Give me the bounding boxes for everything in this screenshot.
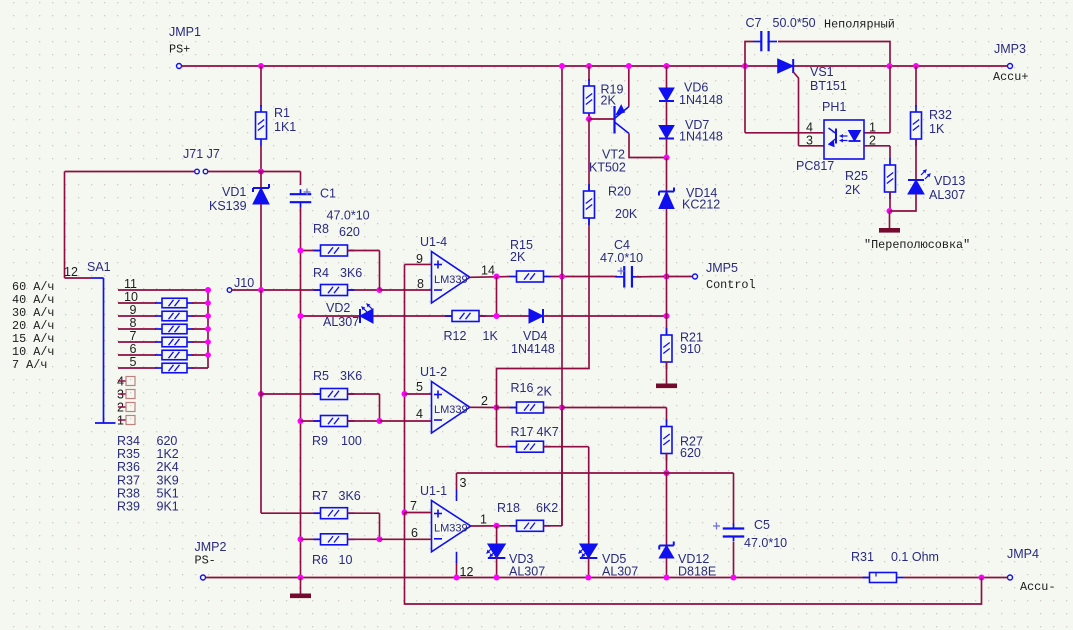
wire down to C5 — [733, 473, 735, 525]
svg-text:7: 7 — [130, 329, 137, 343]
pin 4 wire — [380, 420, 432, 422]
svg-text:47.0*10: 47.0*10 — [600, 251, 643, 265]
svg-text:4K7: 4K7 — [537, 425, 559, 439]
node JMP1 (PS+) terminal — [177, 64, 182, 69]
svg-text:14: 14 — [481, 264, 495, 278]
transistor VT2 KT502 — [589, 118, 614, 120]
op-amp U1-1 LM339 — [432, 501, 471, 552]
svg-text:Control: Control — [706, 278, 756, 292]
svg-text:KC212: KC212 — [682, 198, 720, 212]
pin 6 wire — [380, 538, 432, 540]
svg-text:J10: J10 — [234, 276, 254, 290]
svg-text:15 А/ч: 15 А/ч — [12, 332, 54, 346]
svg-text:R37: R37 — [117, 474, 140, 488]
svg-text:D818E: D818E — [678, 565, 716, 579]
resistor R7 3K6 — [260, 290, 262, 394]
svg-text:5: 5 — [130, 355, 137, 369]
junction R25/VD13/ground — [887, 208, 893, 214]
wire sense return bottom — [405, 513, 982, 605]
resistor R25 2K — [889, 158, 891, 165]
svg-text:10 А/ч: 10 А/ч — [12, 345, 54, 359]
svg-text:PH1: PH1 — [822, 100, 846, 114]
resistor R15 2K — [510, 276, 517, 278]
pin 3 stub — [456, 489, 458, 501]
svg-text:30 А/ч: 30 А/ч — [12, 306, 54, 320]
svg-text:620: 620 — [157, 434, 178, 448]
svg-text:U1-2: U1-2 — [420, 365, 447, 379]
svg-text:6: 6 — [130, 342, 137, 356]
resistor R27 620 — [666, 420, 668, 427]
svg-text:620: 620 — [680, 446, 701, 460]
svg-text:20 А/ч: 20 А/ч — [12, 319, 54, 333]
wire R1 to J71 node — [260, 146, 262, 172]
junction R8 tap on left bus — [298, 248, 304, 254]
svg-text:2K: 2K — [601, 94, 617, 108]
resistor R37 — [155, 341, 162, 343]
resistor R1 1K1 — [260, 66, 262, 107]
wire PH1 pin2 to R25 — [864, 145, 890, 147]
capacitor C4 47.0*10 — [623, 266, 625, 288]
svg-text:R18: R18 — [497, 501, 520, 515]
svg-text:47.0*10: 47.0*10 — [744, 536, 787, 550]
svg-text:3K9: 3K9 — [157, 474, 179, 488]
pin 5 wire — [405, 393, 432, 395]
wire VS1 to PH1 pin3 — [799, 145, 825, 147]
svg-text:12: 12 — [64, 265, 78, 279]
svg-text:R1: R1 — [274, 106, 290, 120]
svg-text:LM339: LM339 — [434, 274, 468, 286]
svg-text:R7: R7 — [312, 489, 328, 503]
svg-text:47.0*10: 47.0*10 — [327, 209, 370, 223]
diode VD2 AL307 LED — [301, 315, 361, 317]
svg-text:5K1: 5K1 — [157, 487, 179, 501]
svg-text:R34: R34 — [117, 434, 140, 448]
svg-text:R25: R25 — [845, 169, 868, 183]
junction collector/VD7 — [664, 155, 670, 161]
svg-text:10: 10 — [124, 290, 138, 304]
svg-text:10: 10 — [339, 553, 353, 567]
svg-text:2K: 2K — [510, 250, 526, 264]
svg-text:PS+: PS+ — [169, 43, 190, 57]
svg-text:8: 8 — [417, 277, 424, 291]
svg-text:U1-4: U1-4 — [420, 235, 447, 249]
diode VD3 AL307 LED — [496, 526, 498, 544]
resistor R36 — [155, 328, 162, 330]
node J10 jumper — [227, 288, 232, 293]
junction R4/R8 at pin8 row — [377, 287, 383, 293]
svg-text:3K6: 3K6 — [339, 489, 361, 503]
diode VD1 KS139 zener — [260, 172, 262, 189]
svg-text:AL307: AL307 — [509, 565, 545, 579]
svg-text:R16: R16 — [511, 381, 534, 395]
junction rail/VD5 — [585, 575, 591, 581]
svg-text:910: 910 — [680, 342, 701, 356]
resistor R9 100 — [298, 418, 304, 424]
svg-text:3K6: 3K6 — [340, 266, 362, 280]
output 1 wire — [471, 525, 517, 527]
svg-text:R20: R20 — [608, 185, 631, 199]
svg-text:2K: 2K — [537, 385, 553, 399]
diode VD6 1N4148 — [664, 63, 670, 69]
svg-text:1K1: 1K1 — [274, 120, 296, 134]
svg-text:R38: R38 — [117, 487, 140, 501]
junction J10 row / VD1 bus — [258, 287, 264, 293]
svg-text:3K6: 3K6 — [340, 369, 362, 383]
svg-text:J71 J7: J71 J7 — [183, 147, 220, 161]
svg-text:60 А/ч: 60 А/ч — [12, 280, 54, 294]
resistor R19 2K — [586, 63, 592, 69]
node JMP5 Control — [668, 276, 693, 278]
junction R5 row / sense bus — [402, 391, 408, 397]
wire PH1 pin4 to left vertical — [744, 66, 746, 133]
svg-text:9K1: 9K1 — [157, 500, 179, 514]
resistor R6 10 — [298, 536, 304, 542]
svg-text:Accu+: Accu+ — [993, 70, 1028, 84]
junction R31/sense return — [979, 575, 985, 581]
svg-text:AL307: AL307 — [929, 188, 965, 202]
optocoupler PH1 PC817 — [824, 120, 864, 159]
resistor R17 4K7 — [496, 408, 498, 447]
junction top rail / R32 — [913, 63, 919, 69]
svg-text:JMP3: JMP3 — [994, 42, 1026, 56]
svg-text:5: 5 — [416, 380, 423, 394]
svg-text:C5: C5 — [754, 518, 770, 532]
svg-text:2K: 2K — [845, 183, 861, 197]
wire J71 row to C1 corner — [208, 171, 301, 173]
emitter wire to rail — [628, 66, 630, 107]
op-amp U1-2 LM339 — [432, 382, 470, 434]
diode VD12 D818E zener — [666, 473, 668, 547]
svg-text:1N4148: 1N4148 — [679, 93, 723, 107]
resistor R12 1K — [445, 315, 452, 317]
resistor R18 6K2 — [510, 525, 517, 527]
svg-text:KS139: KS139 — [209, 199, 247, 213]
resistor R20 20K — [588, 119, 590, 191]
svg-text:R4: R4 — [313, 266, 329, 280]
diode VD7 1N4148 — [666, 101, 668, 126]
resistor R39 — [155, 367, 162, 369]
junction sense / pin7 — [402, 510, 408, 516]
ground R25 — [879, 228, 900, 233]
junction R16 right / x562 bus — [559, 405, 565, 411]
junction top rail / C7 branch — [742, 63, 748, 69]
thyristor VS1 BT151 — [778, 59, 794, 73]
svg-text:PC817: PC817 — [796, 159, 834, 173]
diode VD5 AL307 LED — [580, 544, 598, 558]
svg-text:1K: 1K — [483, 329, 499, 343]
svg-text:1K2: 1K2 — [157, 447, 179, 461]
wire pin8 row to opamp — [380, 289, 432, 291]
svg-text:R39: R39 — [117, 500, 140, 514]
diode VD4 1N4148 — [529, 309, 543, 323]
node JMP3 Accu+ terminal — [1008, 64, 1013, 69]
svg-text:Accu-: Accu- — [1020, 580, 1055, 594]
resistor R21 910 — [666, 316, 668, 335]
svg-text:VD1: VD1 — [222, 185, 246, 199]
junction R19 / VT2 base — [586, 116, 592, 122]
switch bus joining R34-R39 — [207, 290, 209, 368]
svg-text:2: 2 — [481, 394, 488, 408]
capacitor C7 50.0*50 — [745, 42, 753, 67]
svg-text:JMP1: JMP1 — [169, 25, 201, 39]
wire x562 bus from PS+ down to R18 — [561, 66, 563, 526]
node JMP4 Accu- terminal — [1008, 575, 1013, 580]
svg-text:VD13: VD13 — [934, 174, 965, 188]
svg-text:50.0*50: 50.0*50 — [773, 16, 816, 30]
svg-text:9: 9 — [130, 303, 137, 317]
svg-text:3: 3 — [806, 134, 813, 148]
resistor R31 0.1 Ohm shunt — [870, 573, 897, 583]
wire J71 row left — [65, 171, 195, 173]
svg-text:1N4148: 1N4148 — [679, 130, 723, 144]
svg-text:40 А/ч: 40 А/ч — [12, 293, 54, 307]
svg-text:2K4: 2K4 — [157, 460, 179, 474]
ground PS- — [290, 594, 311, 599]
svg-text:0.1 Ohm: 0.1 Ohm — [891, 550, 939, 564]
junction VD4 row right — [664, 313, 670, 319]
wire VD2 to sense bus — [373, 315, 452, 317]
svg-text:R36: R36 — [117, 460, 140, 474]
junction top rail / R1 — [258, 63, 264, 69]
svg-text:VD2: VD2 — [326, 301, 350, 315]
node J71 J7 jumper pins — [195, 169, 200, 174]
resistor R38 — [155, 354, 162, 356]
capacitor C5 47.0*10 — [723, 527, 745, 529]
svg-text:1: 1 — [480, 513, 487, 527]
collector wire — [629, 134, 667, 158]
svg-text:R9: R9 — [312, 434, 328, 448]
svg-text:Неполярный: Неполярный — [824, 18, 895, 32]
svg-text:1K: 1K — [929, 122, 945, 136]
svg-text:1N4148: 1N4148 — [511, 342, 555, 356]
svg-text:C1: C1 — [320, 187, 336, 201]
svg-text:R5: R5 — [313, 369, 329, 383]
svg-text:C4: C4 — [614, 238, 630, 252]
svg-text:BT151: BT151 — [810, 79, 847, 93]
svg-text:R17: R17 — [511, 425, 534, 439]
ground R21 — [656, 384, 677, 389]
svg-text:JMP4: JMP4 — [1007, 547, 1039, 561]
svg-text:7: 7 — [410, 499, 417, 513]
svg-text:AL307: AL307 — [602, 565, 638, 579]
resistor R8 620 — [301, 250, 321, 252]
resistor R4 3K6 — [314, 289, 321, 291]
capacitor C1 47.0*10 — [290, 193, 312, 195]
junction bus / row11 — [205, 287, 211, 293]
svg-text:PS-: PS- — [195, 554, 216, 568]
svg-text:3: 3 — [460, 476, 467, 490]
junction R27 bottom / pin3 row — [664, 470, 670, 476]
svg-text:VS1: VS1 — [810, 65, 834, 79]
junction top rail / C7 right / PH1 pin1 — [887, 63, 893, 69]
svg-text:7 А/ч: 7 А/ч — [12, 358, 47, 372]
pin 12 stub — [456, 552, 458, 563]
diode VD14 KC212 zener — [666, 158, 668, 196]
svg-text:JMP5: JMP5 — [706, 261, 738, 275]
svg-text:VT2: VT2 — [602, 148, 625, 162]
svg-text:R6: R6 — [312, 553, 328, 567]
svg-text:VD4: VD4 — [523, 329, 547, 343]
junction C4 row right — [664, 274, 670, 280]
svg-text:6: 6 — [411, 526, 418, 540]
svg-text:C7: C7 — [746, 16, 762, 30]
junction rail/left bus + ground — [298, 575, 304, 581]
svg-text:JMP2: JMP2 — [195, 540, 227, 554]
wire pin3 row — [456, 473, 458, 489]
svg-text:4: 4 — [416, 407, 423, 421]
svg-text:R8: R8 — [313, 222, 329, 236]
output 2 wire — [470, 406, 497, 408]
svg-text:R35: R35 — [117, 447, 140, 461]
node JMP2 PS- terminal — [201, 575, 206, 580]
wire left drop to SA1 pin 12 — [64, 172, 66, 279]
svg-text:LM339: LM339 — [434, 523, 468, 535]
svg-text:LM339: LM339 — [434, 404, 468, 416]
svg-text:620: 620 — [339, 225, 360, 239]
resistor R32 1K — [915, 66, 917, 107]
op-amp U1-4 LM339 — [432, 252, 470, 304]
resistor R34 — [155, 302, 162, 304]
wire C4 node down to VD4 row — [666, 277, 668, 317]
svg-text:1: 1 — [869, 121, 876, 135]
resistor R35 — [155, 315, 162, 317]
resistor R5 3K6 — [258, 391, 264, 397]
svg-text:11: 11 — [124, 277, 137, 291]
junction rail/pin12 — [454, 575, 460, 581]
svg-text:AL307: AL307 — [323, 315, 359, 329]
svg-text:R32: R32 — [929, 108, 952, 122]
svg-text:R31: R31 — [851, 550, 874, 564]
junction R12/VD4 row under pin14 — [494, 313, 500, 319]
wire R16 row to R27 — [562, 407, 667, 409]
junction rail/VD12 — [664, 575, 670, 581]
wire sense node vertical — [404, 316, 406, 513]
svg-text:R12: R12 — [444, 329, 467, 343]
junction rail/C5 — [731, 575, 737, 581]
resistor R16 2K — [497, 407, 518, 409]
svg-text:8: 8 — [130, 316, 137, 330]
VS1 gate wire — [793, 72, 798, 146]
diode VD13 AL307 LED — [908, 180, 924, 194]
svg-text:KT502: KT502 — [589, 161, 626, 175]
wire top rail PS+ — [182, 65, 1008, 67]
svg-text:"Переполюсовка": "Переполюсовка" — [864, 238, 970, 252]
svg-text:SA1: SA1 — [87, 260, 111, 274]
wire C1 down the left vertical bus — [300, 207, 302, 578]
svg-text:U1-1: U1-1 — [420, 484, 447, 498]
wire PS- rail — [206, 577, 869, 579]
wire node2 up-over to R20 bottom — [497, 218, 590, 408]
svg-text:6K2: 6K2 — [536, 501, 558, 515]
junction rail/VD3 — [494, 575, 500, 581]
svg-text:20K: 20K — [615, 207, 638, 221]
svg-text:100: 100 — [341, 434, 362, 448]
junction R15 row / x562 bus — [559, 274, 565, 280]
junction J71 / VD1 node — [258, 169, 264, 175]
